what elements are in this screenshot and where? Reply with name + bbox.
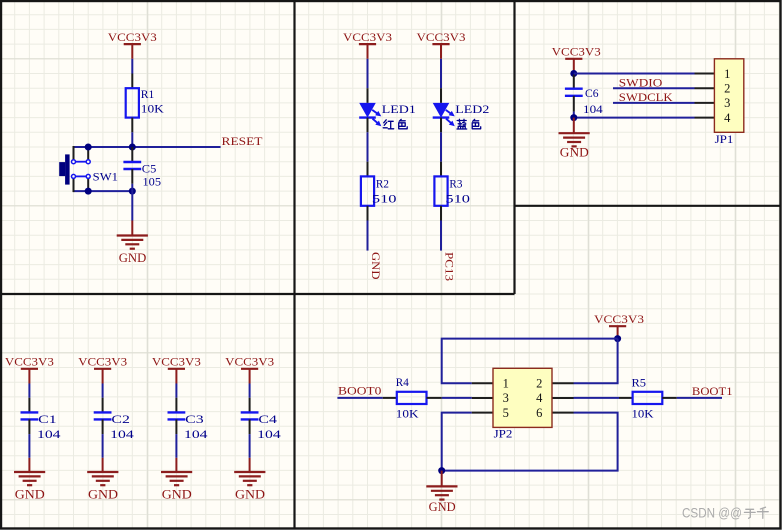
label C4 value 104 — [257, 412, 281, 441]
svg-text:VCC3V3: VCC3V3 — [417, 30, 466, 44]
pin C2.1 — [102, 398, 104, 413]
power port VCC3V3 (C1) — [5, 355, 54, 369]
resistor R3 — [434, 176, 447, 205]
connector JP1 body — [714, 59, 743, 133]
ground (reset section) — [117, 236, 148, 266]
pin JP2.1 — [472, 382, 493, 384]
wire LED2 to R3 — [440, 132, 442, 161]
label R3 value 510 — [445, 177, 470, 206]
label R5 value 10K — [632, 376, 654, 421]
svg-text:3: 3 — [503, 391, 509, 405]
svg-text:10K: 10K — [141, 101, 164, 115]
junction VCC/C6/pin1 wire — [570, 70, 577, 77]
pin C6.1 — [573, 75, 575, 89]
pin R2.1 — [367, 162, 369, 177]
label R4 value 10K — [396, 375, 419, 421]
svg-text:510: 510 — [372, 192, 397, 206]
label LED1 colour — [382, 102, 416, 129]
pin SW1.1 — [73, 146, 75, 160]
pin R1.2 — [131, 118, 133, 133]
junction C5 bottom/GND — [129, 188, 136, 195]
wire VCC loop to JP2 pin2 — [574, 339, 618, 384]
wire JP1 pin1 net — [574, 73, 695, 75]
svg-text:2: 2 — [536, 376, 542, 390]
svg-text:GND: GND — [560, 146, 589, 160]
svg-text:VCC3V3: VCC3V3 — [152, 355, 201, 369]
junction GND/bottom wire — [438, 467, 445, 474]
pin JP2.3 — [472, 397, 493, 399]
pin C5.1 — [131, 147, 133, 162]
svg-text:R3: R3 — [449, 177, 462, 191]
LED LED1 — [359, 103, 381, 126]
svg-text:GND: GND — [429, 500, 456, 514]
resistor R5 — [633, 392, 663, 404]
pin R2.2 — [367, 206, 369, 221]
svg-text:C6: C6 — [585, 86, 599, 100]
label R2 value 510 — [372, 177, 397, 206]
svg-text:1: 1 — [724, 67, 730, 81]
wire VCC loop to JP2 pin1 — [442, 339, 618, 384]
pin SW1.2 — [87, 147, 89, 160]
svg-text:VCC3V3: VCC3V3 — [552, 45, 601, 59]
capacitor C3 — [168, 412, 186, 419]
svg-text:JP2: JP2 — [494, 427, 513, 441]
pin JP2.2 — [552, 382, 574, 384]
power port VCC3V3 (C3) — [152, 355, 201, 369]
resistor R1 — [126, 88, 139, 117]
pin SW1.4 — [87, 178, 89, 191]
svg-text:GND: GND — [162, 487, 192, 501]
pin R4.1 — [383, 397, 397, 399]
svg-text:6: 6 — [536, 406, 542, 420]
svg-text:2: 2 — [724, 82, 730, 96]
JP1 pin numbers 1-4 — [724, 67, 731, 125]
svg-text:R1: R1 — [141, 87, 155, 101]
label C5 value 105 — [142, 162, 161, 189]
wire R1 to RESET node — [131, 132, 133, 147]
label C6 value 104 — [583, 86, 603, 116]
pin R4.2 — [427, 397, 442, 399]
switch SW1 contacts — [72, 160, 91, 179]
panel divider vertical left — [293, 1, 295, 529]
svg-text:GND: GND — [15, 487, 45, 501]
svg-text:C4: C4 — [258, 412, 277, 426]
pin JP1.3 — [695, 102, 715, 104]
wire R5 to BOOT1 — [677, 397, 722, 399]
LED LED2 — [433, 103, 455, 126]
svg-text:10K: 10K — [396, 407, 419, 421]
svg-text:C2: C2 — [111, 412, 129, 426]
pin C1.1 — [28, 398, 30, 413]
wire VCC3V3 to LED2 — [440, 44, 442, 59]
pin C4.2 — [249, 419, 251, 434]
wire JP1 pin3 net SWDCLK — [613, 102, 695, 104]
resistor R4 — [397, 392, 427, 404]
label C1 value 104 — [37, 412, 61, 441]
pin JP2.6 — [552, 412, 574, 414]
wire C3 to GND — [175, 434, 177, 458]
svg-text:104: 104 — [110, 427, 134, 441]
wire JP2 pin4 to R5 — [574, 397, 620, 399]
label C2 value 104 — [110, 412, 134, 441]
junction VCC/top wire — [614, 335, 621, 342]
wire C5 to GND — [131, 184, 133, 191]
wire C4 to GND — [249, 434, 251, 458]
label C3 value 104 — [184, 412, 208, 441]
svg-text:GND: GND — [369, 252, 383, 280]
junction SW1 bottom — [85, 188, 92, 195]
panel divider horizontal left — [1, 293, 515, 295]
svg-text:GND: GND — [235, 487, 265, 501]
wire C1 to GND — [28, 434, 30, 458]
power port VCC3V3 (LED LED2) — [417, 30, 466, 44]
wire VCC3V3 to C2 — [102, 369, 104, 384]
wire R4 to JP2 pin3 — [442, 397, 472, 399]
svg-text:LED1: LED1 — [382, 102, 416, 116]
power port VCC3V3 (reset section) — [108, 30, 157, 44]
pin C2.2 — [102, 419, 104, 434]
pin R3.1 — [440, 162, 442, 177]
pin R5.2 — [662, 397, 677, 399]
svg-text:BOOT0: BOOT0 — [338, 384, 381, 398]
resistor R2 — [361, 176, 374, 205]
svg-text:5: 5 — [503, 406, 509, 420]
ground (C2) — [87, 472, 118, 501]
wire switch bottom horizontal — [74, 190, 133, 192]
junction C6/GND/pin4 wire — [570, 114, 577, 121]
svg-text:10K: 10K — [632, 407, 654, 421]
pin C3.2 — [175, 419, 177, 434]
svg-text:JP1: JP1 — [715, 132, 734, 146]
wire JP1 pin4 net — [574, 117, 695, 119]
svg-text:4: 4 — [536, 391, 543, 405]
wire VCC3V3 stub — [617, 326, 619, 338]
power port VCC3V3 (C4) — [225, 355, 274, 369]
wire VCC3V3 to C4 — [249, 369, 251, 384]
junction RESET/SW1 top — [85, 144, 92, 151]
pin LED2 cathode — [440, 118, 442, 133]
pin R3.2 — [440, 206, 442, 221]
ground (C1) — [14, 472, 45, 501]
svg-text:105: 105 — [143, 175, 162, 189]
svg-text:C1: C1 — [38, 412, 57, 426]
wire R2 to net stub — [367, 221, 369, 251]
pin LED2 anode — [440, 88, 442, 103]
wire RESET net horizontal — [74, 146, 221, 148]
wire JP2 pin5 to GND loop — [442, 413, 618, 471]
pin LED1 cathode — [367, 118, 369, 133]
svg-text:104: 104 — [583, 102, 603, 116]
pin C4.1 — [249, 398, 251, 413]
capacitor C2 — [94, 412, 112, 419]
svg-text:VCC3V3: VCC3V3 — [78, 355, 127, 369]
svg-text:R5: R5 — [632, 376, 647, 390]
label LED2 colour — [455, 102, 489, 129]
wire R3 to net stub — [440, 221, 442, 251]
ground (boot section) — [426, 486, 457, 514]
junction RESET/R1/C5 — [129, 144, 136, 151]
pin JP1.1 — [695, 73, 715, 75]
capacitor C6 — [565, 89, 583, 96]
pin R1.1 — [131, 74, 133, 89]
svg-text:VCC3V3: VCC3V3 — [594, 312, 644, 326]
wire to ground symbol — [441, 471, 443, 487]
svg-text:3: 3 — [724, 96, 730, 110]
JP2 pin numbers — [503, 376, 543, 419]
svg-text:PC13: PC13 — [442, 252, 456, 281]
svg-text:CSDN @@: CSDN @@ — [682, 505, 742, 520]
svg-text:510: 510 — [445, 192, 470, 206]
svg-text:104: 104 — [37, 427, 61, 441]
svg-text:RESET: RESET — [222, 134, 264, 148]
switch SW1 actuator — [59, 154, 69, 184]
power port VCC3V3 (boot section) — [594, 312, 644, 326]
svg-text:104: 104 — [184, 427, 208, 441]
svg-text:VCC3V3: VCC3V3 — [343, 30, 392, 44]
wire BOOT0 to R4 — [337, 397, 382, 399]
svg-text:C3: C3 — [185, 412, 204, 426]
capacitor C5 — [123, 162, 141, 169]
pin C3.1 — [175, 398, 177, 413]
pin C1.2 — [28, 419, 30, 434]
ground (C3) — [161, 472, 192, 501]
ground (SWD section) — [559, 133, 590, 159]
svg-text:BOOT1: BOOT1 — [692, 384, 733, 398]
pin C6.2 — [573, 96, 575, 112]
power port VCC3V3 (LED LED1) — [343, 30, 392, 44]
svg-text:C5: C5 — [142, 162, 157, 176]
wire VCC3V3 to LED1 — [367, 44, 369, 59]
pin SW1.3 — [73, 178, 75, 192]
svg-text:4: 4 — [724, 111, 731, 125]
wire VCC3V3 to R1 — [131, 44, 133, 59]
connector JP2 body — [493, 368, 552, 427]
capacitor C4 — [241, 412, 259, 419]
svg-text:104: 104 — [257, 427, 281, 441]
pin C5.2 — [131, 169, 133, 184]
ground (C4) — [234, 472, 265, 501]
wire JP1 pin2 net SWDIO — [613, 87, 695, 89]
power port VCC3V3 (SWD section) — [552, 45, 601, 59]
pin JP2.5 — [472, 412, 493, 414]
svg-text:LED2: LED2 — [455, 102, 489, 116]
pin R5.1 — [619, 397, 633, 399]
wire VCC3V3 to node — [573, 59, 575, 74]
pin JP2.4 — [552, 397, 574, 399]
capacitor C1 — [21, 412, 39, 419]
label R1 value 10K — [141, 87, 164, 115]
svg-text:VCC3V3: VCC3V3 — [225, 355, 274, 369]
pin JP1.2 — [695, 87, 715, 89]
svg-text:VCC3V3: VCC3V3 — [5, 355, 54, 369]
svg-text:1: 1 — [503, 376, 509, 390]
wire C6 to GND — [573, 118, 575, 134]
panel divider vertical middle — [513, 1, 515, 294]
svg-text:R4: R4 — [396, 375, 409, 389]
svg-text:VCC3V3: VCC3V3 — [108, 30, 157, 44]
wire C2 to GND — [102, 434, 104, 458]
wire VCC3V3 to C1 — [28, 369, 30, 384]
svg-text:GND: GND — [119, 251, 147, 265]
power port VCC3V3 (C2) — [78, 355, 127, 369]
panel divider horizontal right — [515, 205, 782, 207]
pin JP1.4 — [695, 117, 715, 119]
watermark CSDN — [682, 505, 768, 520]
svg-text:SW1: SW1 — [93, 169, 118, 183]
svg-text:R2: R2 — [376, 177, 389, 191]
pin LED1 anode — [367, 88, 369, 103]
wire VCC3V3 to C3 — [175, 369, 177, 384]
svg-text:GND: GND — [88, 487, 118, 501]
wire LED1 to R2 — [367, 132, 369, 161]
